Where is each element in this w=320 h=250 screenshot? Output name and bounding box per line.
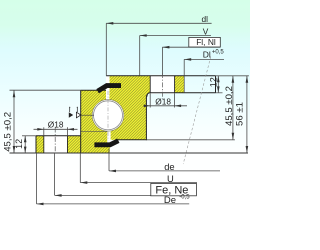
svg-text:dl: dl bbox=[202, 14, 209, 24]
section break dash-dot diagonal bbox=[183, 57, 211, 165]
Fe, Ne box bbox=[151, 183, 197, 195]
svg-text:Ø18: Ø18 bbox=[155, 96, 171, 106]
U arrow bbox=[80, 181, 87, 184]
dimension dl: leader bbox=[106, 23, 211, 75]
right 45,5 arrows bbox=[232, 76, 235, 83]
svg-text:56 ±1: 56 ±1 bbox=[234, 102, 245, 126]
right 56 arrows bbox=[246, 76, 249, 83]
dimension de leader bbox=[109, 149, 220, 171]
top face extension to right dims bbox=[216, 75, 249, 77]
svg-text:12: 12 bbox=[14, 139, 24, 149]
right 12 arrows bbox=[217, 76, 220, 82]
svg-text:U: U bbox=[167, 173, 174, 184]
left dim 45,5 ±0,2 bbox=[10, 90, 81, 153]
bottom seal bbox=[94, 141, 118, 145]
dimension Fe, Ne leader bbox=[55, 153, 151, 195]
inner ring split line bbox=[81, 131, 108, 133]
svg-text:12: 12 bbox=[208, 77, 218, 87]
grease hole in left ring bbox=[81, 114, 94, 116]
top Ø18 dimension bbox=[147, 93, 188, 107]
bottom flange left end face bbox=[35, 136, 37, 153]
Dl arrow bbox=[184, 58, 191, 61]
raceway edge line bbox=[92, 99, 124, 131]
outer ring bottom face extension to right dims bbox=[147, 139, 235, 141]
svg-text:V: V bbox=[203, 26, 209, 36]
grease symbol: filled arrow stick bbox=[69, 108, 71, 112]
bottom flange bolt hole Ø18 bbox=[44, 135, 68, 154]
Fl, Nl box bbox=[189, 37, 221, 47]
svg-text:45,5 ±0,2: 45,5 ±0,2 bbox=[2, 112, 13, 152]
grease symbol: open arrow at bore bbox=[76, 112, 81, 118]
top flange underside extension for 12 dim bbox=[216, 92, 223, 94]
top Ø18 arrows bbox=[144, 105, 151, 108]
ring gap above ball bbox=[106, 76, 109, 102]
bottom Ø18 arrows bbox=[37, 128, 44, 131]
Fe Ne arrow bbox=[55, 194, 62, 197]
bottom hole wall left bbox=[43, 136, 45, 153]
grease symbol: filled arrow bbox=[69, 112, 73, 118]
right dim 45,5 ±0,2 bbox=[232, 76, 234, 140]
dl arrow bbox=[106, 22, 113, 25]
De arrow bbox=[37, 203, 44, 206]
dimension U leader bbox=[80, 153, 197, 183]
de arrow bbox=[109, 170, 116, 173]
svg-text:+0,5: +0,5 bbox=[212, 50, 225, 56]
bottom face common line bbox=[10, 152, 249, 154]
right ring (outer ring) body with top flange bbox=[110, 76, 185, 140]
left 45,5 arrows bbox=[13, 90, 16, 97]
ball bbox=[94, 101, 123, 130]
Fl Nl arrow bbox=[162, 46, 169, 49]
bottom hole centerline bbox=[54, 128, 56, 154]
ball centerline bbox=[107, 91, 109, 141]
hatch boundary at flange (Dl step) bbox=[183, 76, 185, 93]
raceway clearance around ball bbox=[92, 100, 124, 132]
right dim 56 ±1 bbox=[246, 76, 248, 153]
svg-text:Fl, Nl: Fl, Nl bbox=[196, 37, 216, 47]
top hole wall left bbox=[149, 76, 151, 93]
svg-text:de: de bbox=[164, 161, 174, 172]
left 12 arrows bbox=[24, 136, 27, 142]
top face of outer ring and top flange bbox=[106, 75, 215, 77]
bottom flange top face bbox=[36, 135, 81, 137]
svg-text:Ø18: Ø18 bbox=[48, 119, 64, 129]
svg-text:Dl: Dl bbox=[203, 50, 211, 60]
V arrow bbox=[140, 34, 147, 37]
svg-text:De: De bbox=[164, 195, 176, 206]
dimension V: leader bbox=[140, 36, 211, 76]
inner ring bore face bbox=[80, 90, 82, 153]
left dim 12 bbox=[22, 136, 36, 153]
svg-text:45,5 ±0,2: 45,5 ±0,2 bbox=[224, 86, 235, 126]
top flange underside bbox=[147, 93, 216, 97]
bottom hole wall right bbox=[67, 136, 69, 153]
bottom flange of left ring bbox=[36, 136, 82, 153]
grease symbol: open arrow stick bbox=[76, 108, 78, 112]
inner ring top face bbox=[81, 89, 106, 91]
dimension De leader bbox=[37, 153, 190, 204]
dimension Fl, Nl leader bbox=[162, 47, 220, 75]
top flange bolt hole Ø18 bbox=[150, 75, 174, 94]
top hole centerline bbox=[161, 73, 163, 99]
bottom Ø18 dimension bbox=[34, 127, 78, 135]
top flange right end face bbox=[215, 76, 217, 93]
dimension Dl leader bbox=[184, 59, 224, 75]
outer ring bottom face bbox=[118, 139, 147, 141]
right dim 12 bbox=[217, 76, 219, 93]
top seal bbox=[98, 86, 121, 92]
top hole wall right bbox=[174, 76, 176, 93]
svg-text:-0,5: -0,5 bbox=[179, 195, 190, 201]
ring gap below ball bbox=[107, 128, 110, 143]
left ring (inner ring) body bbox=[81, 90, 110, 153]
outer ring outer edge bbox=[145, 96, 147, 141]
